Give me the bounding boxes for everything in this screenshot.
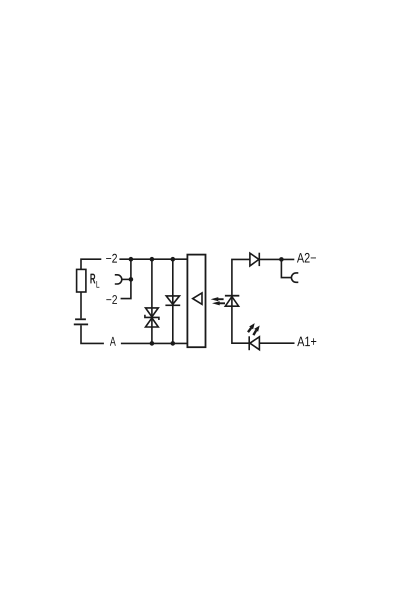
terminal label A1+: [297, 337, 316, 346]
diode (free-wheeling, pointing down): [165, 296, 180, 305]
optocoupler LED (input side, pointing up): [225, 296, 239, 307]
diode top right (series, pointing right): [250, 253, 259, 266]
female clamp contact (left): [115, 275, 122, 284]
amplifier triangle inside box: [193, 293, 202, 304]
node: bottom bus diode: [171, 341, 176, 346]
node: clamp connector junction: [129, 277, 134, 282]
terminal label A2-: [297, 253, 316, 263]
status LED (bottom right, pointing left): [249, 336, 259, 350]
optocoupler light arrow upper: [211, 297, 224, 301]
node: top bus diode: [171, 257, 176, 262]
label RL: [91, 274, 96, 283]
terminal label A: [110, 337, 116, 346]
wire clamp connector: [122, 278, 131, 280]
optocoupler light arrow lower: [212, 301, 225, 305]
wire top-left corner from -2 terminal to load: [81, 259, 101, 269]
battery B1: [74, 319, 88, 324]
output stage box U1: [187, 255, 205, 348]
wire diode to A2- terminal: [259, 258, 294, 260]
node: top bus at clamp dropper: [129, 257, 134, 262]
terminal label -2 (lower stub): [106, 295, 117, 304]
wire dropper to clamp and lower -2 stub: [121, 259, 131, 298]
node: top bus TVS: [150, 257, 155, 262]
wire diode branch vertical: [172, 259, 174, 343]
wire bottom bus: [121, 342, 187, 344]
TVS suppressor diode: [145, 308, 159, 327]
LED light arrow 2: [253, 326, 259, 336]
wire top bus: [119, 258, 187, 260]
female clamp contact (right): [291, 273, 298, 282]
wire resistor to battery: [80, 292, 82, 318]
wire battery to A terminal: [81, 325, 104, 343]
node: bottom bus TVS: [150, 341, 155, 346]
terminal label -2 (top): [106, 254, 117, 263]
wire LED to A1+ terminal: [259, 342, 294, 344]
wire optocoupler LED branch: [232, 259, 250, 343]
wire to right clamp: [281, 259, 291, 277]
resistor RL: [77, 269, 86, 292]
LED light arrow 1: [248, 323, 255, 332]
node: A2- junction: [279, 257, 284, 262]
wire TVS branch vertical: [151, 259, 153, 343]
